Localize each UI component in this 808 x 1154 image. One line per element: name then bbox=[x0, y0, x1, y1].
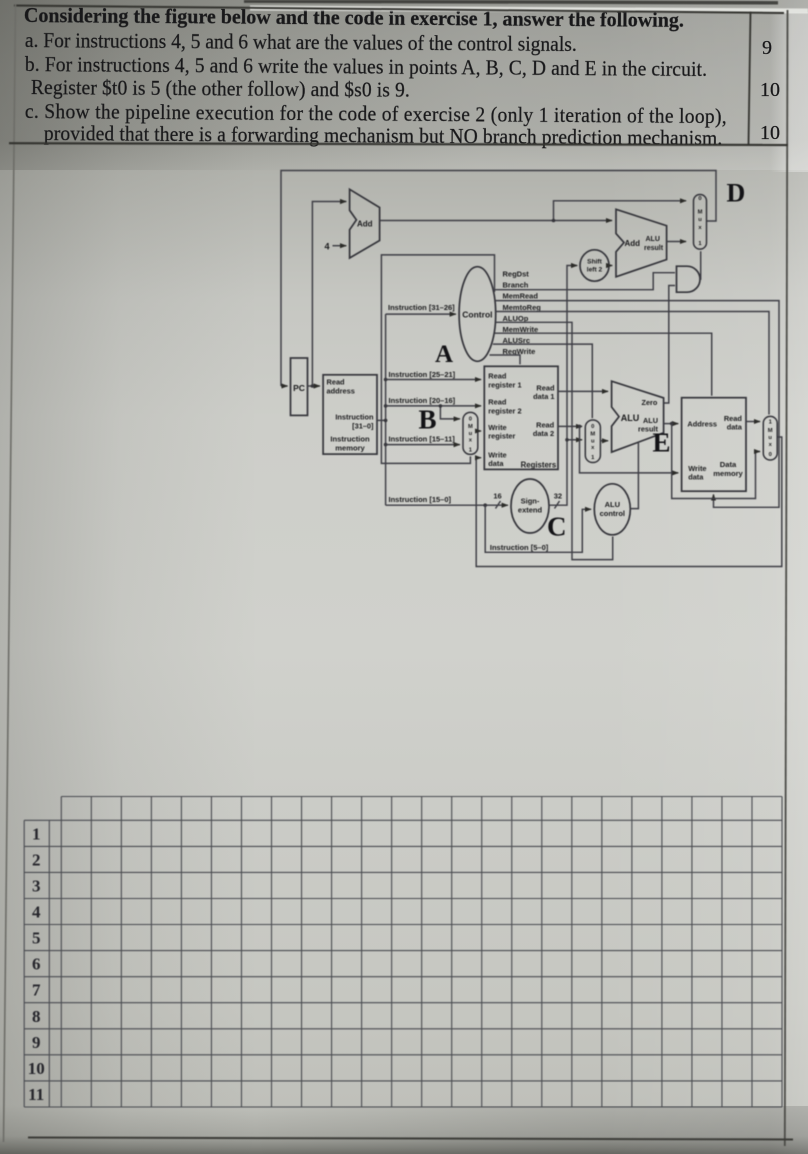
wire MemWrite to data memory write port bbox=[495, 333, 712, 396]
wire ALU result bypass to mux input 0 bbox=[672, 424, 760, 499]
mux MemtoReg bbox=[763, 416, 777, 460]
svg-text:3: 3 bbox=[32, 876, 41, 895]
svg-text:0: 0 bbox=[698, 196, 701, 202]
svg-text:u: u bbox=[768, 435, 772, 441]
wire ALUSrc mux output to ALU bbox=[600, 440, 608, 442]
svg-text:Write: Write bbox=[488, 423, 506, 432]
svg-text:x: x bbox=[769, 442, 773, 448]
wire ALUSrc to mux select bbox=[493, 344, 592, 418]
marks column values bbox=[762, 37, 772, 60]
wire read data 1 to ALU bbox=[558, 390, 608, 392]
svg-text:Instruction [5–0]: Instruction [5–0] bbox=[490, 543, 549, 552]
svg-text:register 1: register 1 bbox=[488, 380, 521, 389]
svg-text:x: x bbox=[698, 225, 702, 231]
svg-text:RegDst: RegDst bbox=[503, 270, 530, 279]
svg-text:result: result bbox=[644, 245, 664, 252]
svg-text:Registers: Registers bbox=[521, 460, 557, 469]
svg-text:6: 6 bbox=[32, 955, 41, 974]
svg-text:u: u bbox=[698, 217, 702, 223]
svg-text:ALU: ALU bbox=[605, 500, 620, 509]
svg-text:16: 16 bbox=[493, 491, 501, 500]
wire ALU control output to ALU bbox=[630, 443, 638, 509]
wire sign extend output riser to shift left 2 bbox=[549, 266, 577, 506]
svg-text:Instruction: Instruction bbox=[335, 413, 374, 422]
svg-text:register: register bbox=[488, 432, 515, 441]
svg-text:left 2: left 2 bbox=[587, 267, 603, 274]
svg-text:9: 9 bbox=[32, 1033, 41, 1052]
svg-text:1: 1 bbox=[469, 447, 473, 453]
mux D PCSrc bbox=[694, 195, 707, 250]
svg-text:address: address bbox=[327, 387, 355, 396]
svg-text:7: 7 bbox=[32, 981, 41, 1000]
wire read data 2 branch to data memory write data bbox=[580, 426, 679, 473]
ALU control unit bbox=[594, 484, 630, 535]
AND gate branch bbox=[677, 266, 701, 292]
data memory bbox=[682, 398, 746, 492]
question text block bbox=[24, 4, 684, 33]
svg-text:Add: Add bbox=[625, 239, 641, 248]
svg-text:Data: Data bbox=[720, 460, 737, 469]
wire MemtoReg to mux select bbox=[495, 312, 769, 415]
shift left 2 unit bbox=[580, 250, 609, 281]
svg-text:M: M bbox=[590, 432, 595, 438]
svg-text:ALU: ALU bbox=[646, 236, 660, 243]
svg-text:memory: memory bbox=[713, 469, 743, 478]
svg-text:B: B bbox=[419, 405, 437, 435]
svg-text:u: u bbox=[591, 438, 595, 444]
svg-text:Zero: Zero bbox=[642, 398, 658, 407]
svg-text:Shift: Shift bbox=[587, 259, 602, 266]
svg-text:Instruction [25–21]: Instruction [25–21] bbox=[389, 370, 456, 379]
svg-text:Control: Control bbox=[462, 310, 492, 320]
svg-text:MemRead: MemRead bbox=[503, 292, 539, 301]
instruction memory bbox=[323, 375, 377, 454]
wire sign extend tap to ALUSrc mux input 1 bbox=[567, 439, 582, 441]
svg-text:1: 1 bbox=[769, 419, 773, 425]
wire ALU result to data memory address bbox=[664, 423, 679, 425]
svg-text:0: 0 bbox=[469, 417, 472, 423]
svg-text:2: 2 bbox=[32, 850, 41, 869]
svg-text:M: M bbox=[698, 210, 703, 216]
svg-text:Read: Read bbox=[488, 398, 507, 407]
svg-text:extend: extend bbox=[518, 506, 543, 515]
svg-text:C: C bbox=[547, 512, 567, 542]
wire read data to mux input 1 bbox=[746, 421, 760, 423]
svg-text:E: E bbox=[653, 428, 671, 458]
svg-text:ALUOp: ALUOp bbox=[503, 314, 529, 323]
svg-text:Sign-: Sign- bbox=[521, 497, 540, 506]
svg-text:Write: Write bbox=[488, 450, 506, 459]
svg-text:Read: Read bbox=[327, 378, 346, 387]
registers file bbox=[484, 366, 558, 469]
ALU main E bbox=[612, 381, 664, 452]
svg-text:Instruction: Instruction bbox=[330, 435, 370, 444]
wire Instruction [5-0] to ALU control bbox=[485, 505, 591, 552]
svg-text:Branch: Branch bbox=[503, 281, 529, 290]
svg-text:Instruction [20–16]: Instruction [20–16] bbox=[389, 396, 456, 405]
svg-text:4: 4 bbox=[32, 903, 41, 922]
svg-text:A: A bbox=[435, 341, 453, 368]
svg-text:Address: Address bbox=[687, 420, 717, 429]
svg-text:Add: Add bbox=[357, 220, 373, 229]
svg-text:8: 8 bbox=[32, 1007, 41, 1026]
svg-text:0: 0 bbox=[769, 452, 772, 458]
bottom rule line bbox=[28, 1138, 793, 1140]
svg-text:M: M bbox=[468, 424, 473, 430]
svg-text:memory: memory bbox=[335, 444, 365, 453]
svg-text:PC: PC bbox=[293, 383, 305, 393]
wire read data 2 to ALUSrc mux input 0 bbox=[558, 425, 582, 427]
svg-text:control: control bbox=[600, 509, 625, 518]
svg-text:data 2: data 2 bbox=[533, 429, 554, 438]
wire branch adder output to mux D input 1 bbox=[667, 241, 686, 243]
mux B RegDst bbox=[463, 412, 478, 454]
wire mux B output to write register bbox=[478, 430, 481, 432]
mux ALUSrc bbox=[585, 420, 600, 463]
wire instruction bus stub bbox=[377, 419, 386, 421]
wire Branch to AND gate bbox=[493, 273, 675, 290]
svg-text:1: 1 bbox=[32, 824, 41, 843]
PC register bbox=[291, 358, 308, 415]
svg-text:MemtoReg: MemtoReg bbox=[503, 303, 542, 312]
wire Zero flag to AND gate bbox=[664, 286, 675, 404]
wire ALUOp to ALU control bbox=[495, 322, 612, 559]
wire MemRead to data memory read port bbox=[495, 301, 779, 508]
wire PC+4 result to branch adder and mux D input 0 bbox=[380, 220, 612, 222]
svg-text:u: u bbox=[469, 431, 473, 437]
svg-text:data 1: data 1 bbox=[533, 392, 554, 401]
svg-text:11: 11 bbox=[28, 1085, 44, 1104]
svg-text:x: x bbox=[469, 438, 473, 444]
svg-text:1: 1 bbox=[591, 455, 595, 461]
svg-text:data: data bbox=[488, 459, 504, 468]
wire write-back to registers write data bbox=[476, 437, 782, 567]
wire RegWrite to registers bbox=[490, 355, 521, 364]
svg-text:32: 32 bbox=[554, 491, 562, 500]
svg-text:5: 5 bbox=[32, 929, 41, 948]
svg-text:data: data bbox=[727, 423, 743, 432]
svg-text:register 2: register 2 bbox=[488, 406, 521, 415]
svg-text:Instruction [31–26]: Instruction [31–26] bbox=[388, 303, 455, 312]
wire AND output to mux D select bbox=[699, 251, 702, 279]
svg-text:1: 1 bbox=[698, 241, 702, 247]
wire PC value riser to Add bbox=[312, 202, 346, 387]
wire RegDst to mux B select (wraps over control) bbox=[381, 255, 494, 464]
svg-text:[31–0]: [31–0] bbox=[352, 422, 374, 431]
svg-text:4: 4 bbox=[325, 242, 330, 252]
adder Add ALU result (branch target) bbox=[616, 209, 667, 276]
svg-text:Instruction [15–0]: Instruction [15–0] bbox=[389, 495, 452, 504]
svg-text:data: data bbox=[688, 472, 704, 481]
adder Add (PC+4) bbox=[350, 189, 380, 258]
svg-text:Read: Read bbox=[488, 371, 507, 380]
wire shift left 2 to branch adder bbox=[609, 265, 612, 267]
svg-text:D: D bbox=[727, 179, 746, 208]
wire PCSrc mux output feedback to PC (top frame) bbox=[281, 171, 716, 387]
svg-text:x: x bbox=[591, 445, 595, 451]
svg-text:M: M bbox=[768, 428, 773, 434]
wire instruction fan-out bus bbox=[385, 314, 387, 505]
control unit U-Control bbox=[459, 267, 496, 362]
svg-text:0: 0 bbox=[591, 424, 594, 430]
svg-text:10: 10 bbox=[28, 1059, 45, 1078]
svg-text:Instruction [15–11]: Instruction [15–11] bbox=[389, 434, 456, 443]
svg-text:ALU: ALU bbox=[621, 413, 640, 423]
sign extend unit bbox=[511, 479, 549, 533]
wire PC to instruction memory read address bbox=[308, 385, 320, 387]
